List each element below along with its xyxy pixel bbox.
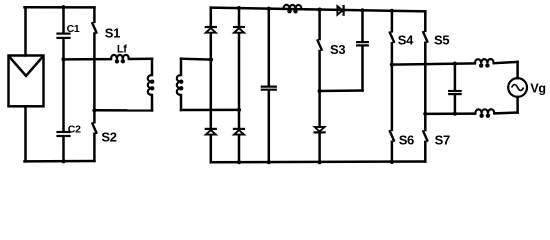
wire Vg top lead: [516, 62, 519, 78]
svg-text:S6: S6: [399, 132, 414, 147]
node junction primary return / S-branch: [92, 108, 96, 112]
wire bridge leg2 middle: [238, 33, 241, 129]
label Vg: [530, 81, 545, 95]
node junction bottom rail / S6 leg: [390, 160, 394, 164]
wire flying cap leg upper: [361, 10, 364, 41]
inductor output upper: [475, 59, 494, 68]
node junction bottom rail / leg2: [237, 160, 241, 164]
wire upper output line left: [392, 63, 475, 64]
PV panel PV: [9, 56, 44, 107]
wire Vg bottom lead: [516, 97, 519, 113]
wire S5 leg upper: [424, 11, 427, 31]
diode D4 (bridge leg2 bottom): [234, 129, 244, 135]
wire C-branch upper: [62, 7, 65, 32]
svg-text:S4: S4: [398, 32, 414, 47]
diode D3 (bridge leg1 bottom): [206, 129, 216, 135]
node junction mid rail start: [61, 57, 65, 61]
wire S-branch lower lead: [93, 134, 96, 161]
capacitor flying: [357, 42, 368, 45]
wire bridge leg2 top: [238, 8, 241, 27]
node junction top rail / S4 leg: [390, 9, 394, 13]
wire S7 leg lower: [424, 142, 427, 162]
wire bridge leg1 middle: [210, 33, 213, 129]
capacitor output filter: [449, 91, 460, 94]
node junction secondary top / bridge leg 1: [209, 58, 213, 62]
label S5: [434, 32, 449, 47]
wire PV bottom lead: [24, 106, 27, 161]
wire primary top lead: [151, 59, 154, 75]
diode D2 (bridge leg2 top): [234, 27, 244, 33]
inductor output lower: [475, 109, 494, 118]
wire S4-S6 leg middle: [391, 43, 394, 130]
label S2: [101, 129, 116, 144]
wire bottom rail middle: [211, 160, 425, 163]
label C2: [68, 123, 81, 135]
wire secondary bottom lead: [181, 109, 239, 112]
wire lower output line right: [494, 111, 517, 114]
wire S3 leg middle: [318, 51, 321, 91]
label S4: [398, 32, 414, 47]
wire S3 leg lower: [318, 91, 321, 127]
wire primary return: [94, 109, 152, 112]
wire secondary top lead vertical: [180, 59, 183, 75]
wire bottom-left rail: [25, 160, 95, 163]
svg-text:S7: S7: [435, 132, 450, 147]
wire S5-S7 leg middle: [424, 43, 427, 130]
wire S4 leg upper: [391, 11, 394, 31]
wire DC-link cap leg upper: [268, 9, 271, 86]
diode D1 (bridge leg1 top): [206, 27, 216, 33]
wire DC-link cap leg lower: [268, 91, 271, 163]
wire S6 leg lower: [391, 142, 394, 162]
node junction bottom rail / S3 leg: [318, 160, 322, 164]
node junction S3 leg / flying cap: [318, 89, 322, 93]
svg-text:S5: S5: [434, 32, 449, 47]
wire flying cap return: [320, 89, 363, 92]
svg-text:Vg: Vg: [530, 81, 545, 95]
switch S7: [423, 131, 427, 141]
wire flying cap leg lower: [361, 46, 364, 90]
wire upper output line right: [494, 62, 518, 63]
label Lf: [117, 44, 127, 56]
switch S3: [318, 40, 322, 50]
wire secondary bottom vertical: [180, 95, 183, 110]
wire mid rail to Lf: [64, 58, 112, 61]
wire bridge leg1 top: [210, 8, 213, 27]
wire S-branch between S1 and S2: [93, 34, 96, 123]
wire primary bottom lead: [151, 95, 154, 110]
svg-text:C1: C1: [67, 23, 80, 35]
node junction upper output / S4 leg: [390, 63, 394, 67]
node junction upper output / filter cap: [453, 62, 457, 66]
node junction top rail / S3 leg: [318, 8, 322, 12]
node junction top rail / DC cap: [267, 7, 271, 11]
label C1: [67, 23, 80, 35]
label S7: [435, 132, 450, 147]
inductor boost (top rail): [284, 5, 302, 14]
switch S4: [390, 33, 394, 43]
wire C-branch lower: [62, 137, 65, 161]
diode D5 (S3 leg, pointing down): [315, 127, 325, 132]
wire S3 leg upper: [318, 10, 321, 39]
wire C-branch middle: [62, 39, 65, 131]
wire S3 leg to bottom rail: [318, 133, 321, 162]
wire top-left rail: [25, 6, 95, 9]
switch S1: [92, 23, 96, 32]
svg-text:S3: S3: [330, 42, 345, 57]
wire lower output line left: [425, 112, 475, 115]
wire top rail middle: [211, 8, 425, 12]
wire bridge leg2 bottom: [238, 135, 241, 162]
source Vg (AC): [508, 78, 527, 97]
switch S2: [92, 123, 96, 132]
label S1: [105, 25, 120, 40]
wire filter cap leg upper: [454, 64, 457, 91]
wire filter cap leg lower: [454, 95, 457, 114]
label S6: [399, 132, 414, 147]
wire secondary top lead: [181, 57, 211, 60]
node junction secondary bottom / bridge leg 2: [237, 108, 241, 112]
switch S6: [390, 131, 394, 141]
capacitor DC link: [262, 87, 276, 90]
wire bridge leg1 bottom: [210, 135, 213, 162]
svg-text:Lf: Lf: [117, 44, 127, 56]
switch S5: [423, 32, 427, 42]
node junction lower output / filter cap: [453, 112, 457, 116]
wire mid rail Lf to primary: [129, 58, 152, 61]
wire PV top lead: [24, 7, 27, 55]
diode D6 (top rail, pointing right): [337, 6, 343, 15]
node junction top rail / leg2: [237, 6, 241, 10]
node junction bottom rail / C-branch: [61, 159, 65, 163]
node junction lower output / S7 leg: [423, 112, 427, 116]
node junction bottom rail / DC cap: [267, 160, 271, 164]
transformer secondary winding: [177, 75, 184, 95]
node junction top rail / C-branch: [61, 5, 65, 9]
svg-text:S1: S1: [105, 25, 120, 40]
capacitor C1: [58, 34, 70, 38]
label S3: [330, 42, 345, 57]
capacitor C2: [58, 132, 70, 136]
inductor Lf: [111, 55, 129, 64]
svg-text:C2: C2: [68, 123, 81, 135]
transformer primary winding: [148, 75, 155, 95]
wire S-branch upper lead: [93, 7, 96, 22]
svg-text:S2: S2: [101, 129, 116, 144]
node junction top rail / flying cap leg: [360, 8, 364, 12]
